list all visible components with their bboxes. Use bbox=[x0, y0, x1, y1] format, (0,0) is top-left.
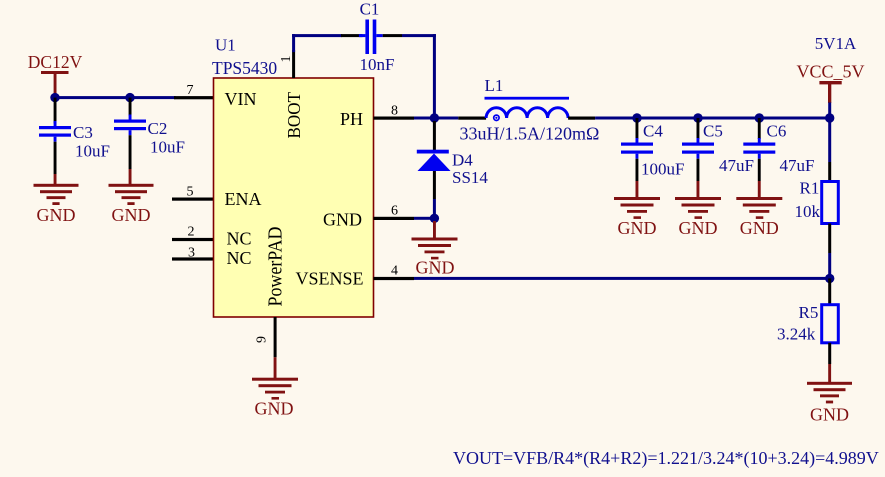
node VSENSE/R1/R5 junction bbox=[825, 274, 834, 283]
svg-text:8: 8 bbox=[391, 103, 398, 118]
wire pin6 to D4 node bbox=[414, 217, 436, 220]
resistor R5 bbox=[777, 278, 838, 364]
svg-text:C5: C5 bbox=[703, 122, 723, 141]
wire PH node to L1 bbox=[436, 117, 458, 120]
svg-text:BOOT: BOOT bbox=[284, 92, 304, 139]
inductor L1 left pin bbox=[458, 117, 486, 120]
svg-text:3: 3 bbox=[188, 245, 195, 260]
ground GND below C5 bbox=[675, 181, 721, 238]
node junction at C4 bbox=[632, 113, 641, 122]
svg-text:47uF: 47uF bbox=[780, 156, 815, 175]
capacitor C1 bbox=[341, 0, 402, 74]
svg-text:SS14: SS14 bbox=[452, 168, 488, 187]
wire VSENSE net to R5 junction bbox=[414, 277, 830, 280]
svg-text:ENA: ENA bbox=[225, 189, 262, 209]
svg-text:GND: GND bbox=[112, 205, 151, 225]
svg-text:10uF: 10uF bbox=[150, 138, 185, 157]
svg-text:7: 7 bbox=[187, 83, 194, 98]
ground GND below PowerPAD bbox=[252, 357, 298, 418]
svg-text:TPS5430: TPS5430 bbox=[212, 58, 277, 78]
svg-text:2: 2 bbox=[188, 225, 195, 240]
wire VCC down to rail bbox=[828, 103, 831, 119]
svg-text:DC12V: DC12V bbox=[28, 52, 83, 72]
capacitor C3 bbox=[39, 98, 110, 174]
pin 3 NC stub bbox=[172, 257, 214, 260]
svg-text:VOUT=VFB/R4*(R4+R2)=1.221/3.24: VOUT=VFB/R4*(R4+R2)=1.221/3.24*(10+3.24)… bbox=[453, 448, 879, 469]
svg-text:C1: C1 bbox=[360, 0, 380, 18]
svg-text:GND: GND bbox=[740, 218, 779, 238]
diode D4 SS14 bbox=[417, 121, 489, 218]
svg-text:33uH/1.5A/120mΩ: 33uH/1.5A/120mΩ bbox=[460, 124, 600, 144]
inductor L1 bbox=[460, 76, 600, 144]
ground GND below R5 bbox=[807, 364, 852, 425]
svg-text:47uF: 47uF bbox=[719, 156, 754, 175]
svg-text:10k: 10k bbox=[795, 202, 821, 221]
svg-text:GND: GND bbox=[323, 210, 362, 230]
node junction at C2 bbox=[125, 93, 134, 102]
node junction at C5 bbox=[693, 113, 702, 122]
ground GND below C2 bbox=[109, 169, 154, 225]
ground GND below C6 bbox=[736, 181, 782, 238]
pin 2 NC stub bbox=[172, 238, 214, 241]
svg-text:D4: D4 bbox=[452, 151, 473, 170]
wire L1 to output corner bbox=[595, 117, 830, 120]
node input junction at DC12V/C3 bbox=[50, 93, 59, 102]
svg-text:10uF: 10uF bbox=[75, 142, 110, 161]
inductor L1 right pin bbox=[568, 117, 595, 120]
pin 4 VSENSE stub bbox=[374, 277, 415, 280]
svg-text:10nF: 10nF bbox=[360, 55, 395, 74]
svg-text:C4: C4 bbox=[643, 122, 663, 141]
svg-text:PH: PH bbox=[340, 109, 363, 129]
svg-text:6: 6 bbox=[391, 203, 398, 218]
svg-text:C3: C3 bbox=[73, 123, 93, 142]
svg-text:VSENSE: VSENSE bbox=[295, 268, 363, 288]
svg-text:100uF: 100uF bbox=[641, 160, 684, 179]
op-amp U1 body TPS5430 bbox=[214, 78, 374, 317]
power flag VCC_5V / 5V1A bbox=[796, 34, 864, 103]
power flag DC12V bbox=[28, 52, 83, 95]
svg-text:R5: R5 bbox=[799, 303, 819, 322]
ground GND below C4 bbox=[614, 181, 660, 238]
svg-text:GND: GND bbox=[679, 218, 718, 238]
node PH junction bbox=[430, 113, 439, 122]
resistor R1 bbox=[795, 118, 839, 279]
svg-text:C6: C6 bbox=[767, 122, 787, 141]
svg-text:5: 5 bbox=[187, 185, 194, 200]
capacitor C5 bbox=[682, 118, 754, 181]
svg-text:4: 4 bbox=[391, 263, 398, 278]
pin 6 GND stub bbox=[374, 217, 415, 220]
svg-text:GND: GND bbox=[810, 405, 849, 425]
ground GND below C3 bbox=[34, 174, 79, 225]
capacitor C6 bbox=[743, 118, 814, 181]
wire BOOT to C1 bbox=[292, 34, 295, 52]
pin 5 ENA stub bbox=[172, 198, 214, 201]
svg-text:NC: NC bbox=[227, 229, 252, 249]
ground GND below D4 bbox=[412, 221, 458, 278]
svg-text:VCC_5V: VCC_5V bbox=[796, 62, 864, 82]
svg-text:C2: C2 bbox=[148, 119, 168, 138]
svg-text:GND: GND bbox=[416, 258, 455, 278]
node D4 anode / GND junction bbox=[430, 214, 439, 223]
svg-text:PowerPAD: PowerPAD bbox=[265, 227, 287, 307]
node junction at VCC corner bbox=[825, 113, 834, 122]
wire PH pin to node bbox=[414, 117, 436, 120]
wire C1 right to PH rail bbox=[402, 34, 436, 37]
capacitor C4 bbox=[621, 118, 684, 181]
svg-text:GND: GND bbox=[618, 218, 657, 238]
svg-text:GND: GND bbox=[255, 399, 294, 419]
pin 8 PH stub bbox=[374, 117, 415, 120]
svg-text:R1: R1 bbox=[800, 179, 820, 198]
svg-text:9: 9 bbox=[255, 336, 270, 343]
capacitor C2 bbox=[114, 98, 185, 169]
svg-text:U1: U1 bbox=[215, 36, 236, 55]
svg-text:NC: NC bbox=[227, 248, 252, 268]
svg-text:5V1A: 5V1A bbox=[815, 34, 857, 53]
pin 9 PowerPAD stub (vertical) bbox=[274, 317, 277, 357]
svg-text:VIN: VIN bbox=[225, 89, 257, 109]
svg-text:3.24k: 3.24k bbox=[777, 325, 816, 344]
wire input rail bbox=[54, 96, 176, 99]
node junction at C6 bbox=[755, 113, 764, 122]
pin 1 BOOT stub (vertical) bbox=[292, 50, 295, 78]
pin 7 VIN stub bbox=[174, 96, 214, 99]
svg-text:GND: GND bbox=[37, 205, 76, 225]
svg-text:1: 1 bbox=[279, 56, 294, 63]
svg-text:L1: L1 bbox=[485, 76, 504, 95]
